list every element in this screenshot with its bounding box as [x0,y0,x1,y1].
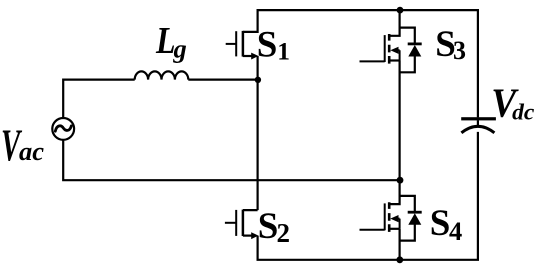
svg-text:ac: ac [19,136,44,166]
svg-text:S: S [258,206,279,247]
svg-text:2: 2 [277,218,291,248]
svg-text:4: 4 [449,216,462,246]
svg-text:dc: dc [512,100,535,126]
svg-text:3: 3 [453,36,466,65]
svg-text:1: 1 [277,37,290,66]
svg-text:S: S [257,24,278,65]
svg-text:L: L [155,19,175,61]
svg-text:g: g [173,33,187,63]
svg-text:S: S [430,203,451,244]
